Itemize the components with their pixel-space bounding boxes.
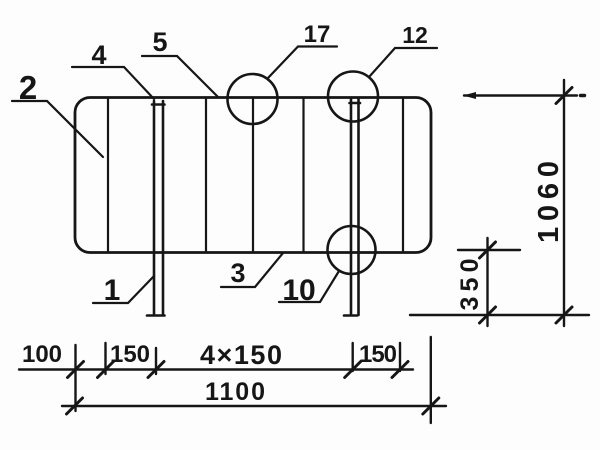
svg-text:17: 17 <box>304 21 331 48</box>
svg-text:150: 150 <box>110 341 150 368</box>
svg-text:100: 100 <box>22 341 62 368</box>
svg-text:4: 4 <box>91 40 106 70</box>
svg-text:1100: 1100 <box>205 378 265 406</box>
svg-text:10: 10 <box>282 274 315 307</box>
svg-text:5: 5 <box>152 27 167 57</box>
svg-text:1: 1 <box>104 274 121 307</box>
svg-text:3: 3 <box>230 258 245 288</box>
svg-text:350: 350 <box>456 259 484 311</box>
svg-text:1060: 1060 <box>533 161 565 243</box>
svg-text:12: 12 <box>402 22 428 48</box>
svg-text:4×150: 4×150 <box>200 340 282 370</box>
svg-text:2: 2 <box>19 69 37 106</box>
svg-text:150: 150 <box>359 341 397 368</box>
